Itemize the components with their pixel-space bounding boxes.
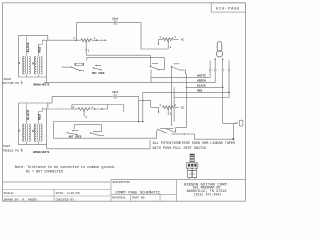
wire bus second y57.4: [87, 56, 165, 58]
switch SW2 not used: [95, 64, 101, 66]
switch SW3: [150, 66, 151, 67]
wire upper lead row2: [74, 124, 101, 126]
wire pot A output with arrow: [96, 39, 104, 41]
pot D terminal 3 to NC: [173, 106, 179, 108]
pot C bail wire: [71, 105, 73, 110]
svg-text:S: S: [18, 62, 20, 65]
outer border frame: [3, 3, 246, 201]
switch SW6: [90, 132, 91, 133]
wire pot C bail extension right: [108, 104, 124, 106]
toggle pole wire 3 with arrow: [222, 60, 224, 68]
wire pickup P2 to pot C: [47, 103, 49, 108]
title block drawn row line: [3, 195, 111, 197]
pot B terminal 3 to NC: [173, 38, 179, 40]
wire pickup P1 to pot A: [42, 39, 76, 41]
svg-text:NC: NC: [181, 107, 185, 110]
svg-text:NC: NC: [181, 39, 185, 42]
capacitor C2 .02uf: [113, 94, 115, 98]
node pot A term3 junction: [76, 39, 78, 41]
wire pickup P2 top to cap C2: [48, 102, 52, 104]
svg-text:CHECKED BY:: CHECKED BY:: [56, 197, 77, 201]
wire SW3 branch down: [173, 87, 175, 121]
svg-text:DESCRIPTION: DESCRIPTION: [113, 181, 131, 184]
title block middle top line: [111, 179, 177, 181]
wire pickup P1 bottom stub: [46, 77, 48, 82]
wire cluster feeds: [175, 127, 177, 131]
switch SW5 not used: [72, 130, 78, 132]
phase switch cluster: [156, 130, 158, 138]
pickup P2 500T treble humbucker: [19, 103, 48, 144]
svg-text:RED: RED: [38, 47, 42, 53]
node pot A right junction: [96, 39, 98, 41]
toggle pole wire 2 with arrow: [214, 60, 216, 68]
wire ground bus y138.2: [54, 137, 157, 139]
wire to output jack: [223, 122, 236, 124]
pot C resistor body: [78, 108, 90, 111]
pot A resistor body: [81, 39, 92, 42]
svg-text:DATE: 2/26/95: DATE: 2/26/95: [56, 191, 80, 195]
svg-text:PART NO.: PART NO.: [132, 197, 146, 200]
svg-text:NOT USED: NOT USED: [92, 72, 105, 75]
ground symbol at rhythm pickup: [21, 81, 23, 83]
output jack J1 plug body: [239, 120, 243, 126]
svg-text:RED: RED: [38, 114, 42, 120]
switch SW1 rhythm coil tap: [62, 66, 72, 68]
toggle switch ball: [216, 51, 222, 57]
svg-text:(615) 371-2001: (615) 371-2001: [194, 192, 222, 196]
svg-text:N: N: [32, 130, 34, 133]
switch SW1 actuator bar: [75, 63, 83, 65]
svg-text:S: S: [18, 129, 20, 132]
svg-text:.02uf: .02uf: [111, 17, 119, 20]
svg-text:WITH PUSH-PULL SPST SWITCH: WITH PUSH-PULL SPST SWITCH: [153, 147, 207, 151]
wire pot C leads: [72, 108, 78, 110]
wire jack sleeve to ground: [232, 123, 234, 138]
switch SW4: [171, 66, 172, 67]
svg-text:SCALE:: SCALE:: [4, 191, 15, 195]
ground symbol at treble pickup: [21, 148, 23, 150]
svg-text:ALL POTENTIOMETERS 500K OHM LI: ALL POTENTIOMETERS 500K OHM LINEAR TAPER: [153, 142, 236, 146]
title block description underline: [111, 193, 177, 195]
svg-text:DRAWN BY: R. AKERS: DRAWN BY: R. AKERS: [4, 197, 38, 201]
svg-text:N: N: [32, 63, 34, 66]
page background: [0, 0, 247, 204]
capacitor C1 .02uf: [113, 20, 115, 24]
pot D wiper terminal 2: [167, 110, 169, 115]
wire toggle3 down to jack: [222, 71, 224, 124]
wire pot A zig to junction: [76, 39, 81, 41]
toggle contact wire 1: [209, 61, 211, 69]
svg-text:JIMMY PAGE SCHEMATIC: JIMMY PAGE SCHEMATIC: [115, 191, 161, 195]
wire bus from pot A wiper: [86, 54, 150, 56]
wire cap C2 to junction: [116, 95, 138, 97]
pot B resistor body: [163, 38, 174, 41]
output jack J1 tip contact: [235, 122, 238, 124]
svg-text:BROWN/WHITE: BROWN/WHITE: [33, 83, 50, 86]
wire P2 brown white bus: [46, 144, 48, 148]
wire ground return y97.5: [174, 97, 229, 99]
svg-text:MATERIAL: MATERIAL: [112, 197, 126, 200]
svg-text:RHYTHM PU: RHYTHM PU: [2, 81, 19, 85]
svg-text:TREBLE PU: TREBLE PU: [2, 148, 19, 152]
svg-text:Note: Tolerance to be connecte: Note: Tolerance to be connected to commo…: [15, 165, 116, 170]
svg-text:ECH-PAGE: ECH-PAGE: [216, 7, 240, 11]
wire cluster to ground dot: [186, 133, 195, 135]
pot D resistor body: [163, 106, 174, 109]
svg-text:BROWN/WHITE: BROWN/WHITE: [33, 151, 50, 154]
output jack pictorial icon: [190, 154, 194, 163]
pot C wiper terminal 2: [83, 112, 85, 117]
gibson address box: [176, 180, 178, 202]
title block material divider: [130, 194, 132, 201]
title block divider x111: [110, 180, 112, 202]
title block left top line: [3, 181, 111, 183]
pot A wiper terminal 2: [85, 43, 87, 56]
wire pot D feed: [139, 99, 151, 101]
toggle contact wire 4: [228, 61, 230, 69]
title block divider x54: [53, 190, 55, 202]
toggle switch lever: [217, 42, 222, 52]
ECH-PAGE title box: [211, 3, 245, 12]
pot B wiper terminal 2: [167, 42, 169, 49]
title block scale row line: [3, 189, 111, 191]
ground dot at jack: [232, 138, 234, 140]
svg-text:NC = NOT CONNECTED: NC = NOT CONNECTED: [26, 171, 63, 175]
pickup P1 496R rhythm humbucker: [19, 36, 48, 77]
wire SW4 down to phase cluster: [171, 67, 173, 126]
wire pot A up to cap C1: [75, 23, 77, 41]
svg-text:.02uf: .02uf: [111, 91, 119, 94]
svg-text:BLACK: BLACK: [26, 42, 30, 52]
wire bus y121.5: [54, 121, 143, 123]
svg-text:BLACK: BLACK: [26, 110, 30, 120]
title block partno divider: [159, 194, 161, 201]
wire cap C1 to volume pot B: [116, 22, 141, 24]
